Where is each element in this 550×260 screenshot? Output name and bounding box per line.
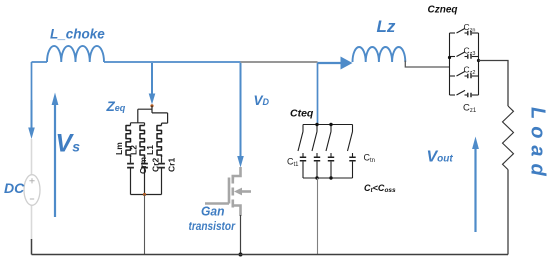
transistor Q1 GaN [205,167,251,216]
svg-text:L1: L1 [145,145,155,155]
svg-text:L2: L2 [129,145,139,155]
svg-text:Vout: Vout [427,149,454,166]
wire: left vertical light gray [31,139,33,240]
capacitor Czn branch [450,28,479,35]
node: Cteq top rail junctions [315,123,318,126]
wire: left bottom dark [31,239,33,255]
node: orange junction at Zeq bottom [143,193,146,196]
svg-text:VD: VD [254,93,270,108]
arrow Vs (up) [54,104,56,217]
svg-text:DC: DC [4,180,25,196]
capacitor Cr1 [161,157,163,163]
wire: Lz output to Czneq [405,61,449,68]
node: Czneq output junction [477,59,480,62]
wire: left vertical blue upper [31,62,33,128]
svg-text:Cz2: Cz2 [464,65,476,77]
wire: load to bottom rail [507,170,509,255]
svg-text:Load: Load [527,107,549,183]
inductor L1 [157,126,162,157]
node: orange junction at Zeq top [150,104,153,107]
capacitor Ct3 branch [326,125,334,179]
wire: Czneq left rail [449,33,451,95]
svg-text:Cr1: Cr1 [167,158,177,172]
svg-text:Cr2: Cr2 [151,158,161,172]
svg-text:Lm: Lm [114,142,124,155]
capacitor Ct2 branch [312,125,320,179]
resistor Load [503,106,514,170]
svg-text:Czn: Czn [464,22,476,34]
wire: Zeq to bottom rail [144,195,146,255]
capacitor Ct1 branch [298,125,306,179]
inductor L2 [140,126,145,157]
svg-text:Crm: Crm [138,157,148,174]
wire: Zeq top staircase [131,106,168,126]
wire: Cteq top rail [303,124,353,126]
svg-text:Cteq: Cteq [290,108,314,120]
svg-text:Ct1: Ct1 [287,157,299,169]
svg-text:transistor: transistor [189,219,237,233]
wire: transistor source to rail [240,215,242,255]
svg-text:Cz3: Cz3 [464,46,476,58]
svg-text:Zeq: Zeq [106,99,126,114]
node: Cteq bottom rail junctions [315,176,318,179]
svg-text:L_choke: L_choke [50,27,105,42]
svg-text:Gan: Gan [201,205,225,219]
svg-text:Cz1: Cz1 [463,103,477,115]
wire: bottom rail [32,254,509,256]
wire: Czneq right rail [478,33,480,95]
svg-text:Lz: Lz [377,17,396,36]
wire: top rail left (blue) [32,61,241,63]
arrow: Zeq drop arrow (down) [151,63,153,95]
capacitor Cz1 branch [450,90,479,97]
arrow VD (down) [240,63,242,157]
inductor Lz [353,47,406,62]
svg-text:Ctn: Ctn [364,153,376,165]
svg-text:Ct<Coss: Ct<Coss [364,183,396,194]
source DC [24,175,40,206]
wire: Cteq drop (blue) [317,63,319,125]
inductor Lm [126,126,131,157]
wire: top rail middle gray [241,61,318,63]
capacitor Crm [130,157,132,163]
node: Czneq input junction [448,56,451,59]
wire: Cteq to bottom rail [317,178,319,255]
wire: Cteq bottom rail [303,177,353,179]
wire: Czneq output to load [479,61,509,107]
capacitor Ctn branch [348,125,356,179]
capacitor Cz3 branch [450,52,479,59]
arrow: input current arrow (down) on left wire [31,100,33,128]
svg-text:Vs: Vs [56,130,81,158]
capacitor Cz2 branch [450,71,479,78]
capacitor Cr2 [144,157,146,163]
arrow: Lz input arrow (right) [318,62,342,64]
node: junction transistor source on bottom rail [239,253,243,257]
arrow Vout (up) [474,148,476,232]
svg-text:Czneq: Czneq [428,5,458,16]
wire: Zeq bottom join [131,194,162,196]
inductor L_choke [47,46,104,62]
